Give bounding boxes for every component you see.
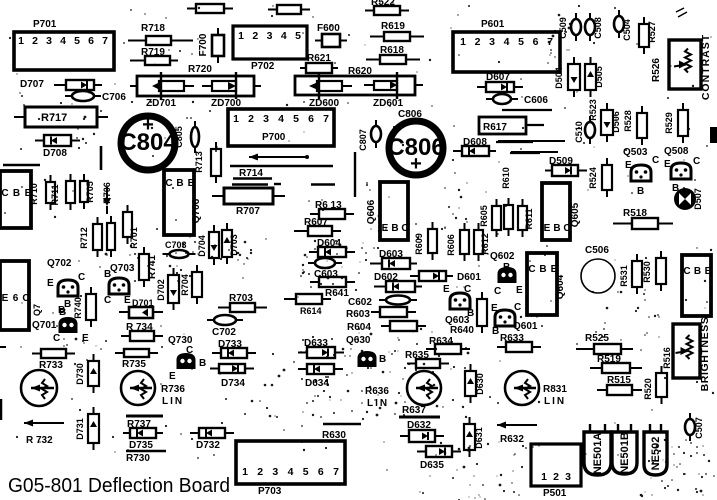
left edge mark	[0, 399, 2, 420]
diode D732	[190, 428, 234, 438]
transistor block E6C lower-left	[0, 261, 30, 330]
svg-text:C702: C702	[212, 327, 236, 338]
svg-text:R831: R831	[543, 384, 567, 395]
resistor R735	[115, 349, 158, 357]
resistor R611	[518, 199, 527, 237]
svg-text:D701: D701	[132, 298, 154, 308]
wire right of C606	[502, 109, 552, 111]
svg-text:CONTRAST: CONTRAST	[700, 34, 712, 100]
diode D604	[309, 247, 355, 257]
svg-text:E: E	[443, 284, 450, 295]
svg-text:B: B	[553, 223, 560, 234]
svg-text:5: 5	[518, 36, 524, 48]
capacitor C807	[371, 120, 381, 148]
svg-text:R632: R632	[500, 434, 524, 445]
zener ZD701	[152, 72, 194, 99]
svg-text:4: 4	[504, 36, 510, 48]
capacitor C603	[308, 258, 342, 268]
svg-text:R525: R525	[585, 333, 609, 344]
diode D731	[88, 407, 99, 450]
wire right lower	[510, 152, 540, 154]
svg-text:R736: R736	[161, 384, 185, 395]
resistor R515	[597, 385, 642, 395]
svg-text:1: 1	[238, 30, 244, 42]
svg-text:Q701: Q701	[32, 320, 57, 331]
diode D603	[370, 258, 417, 269]
svg-text:R530: R530	[642, 261, 652, 283]
svg-text:R712: R712	[79, 227, 89, 249]
resistor R609	[428, 222, 437, 260]
resistor R718	[128, 36, 193, 45]
svg-text:C: C	[528, 264, 535, 275]
potentiometer R831	[505, 371, 539, 405]
svg-text:Q702: Q702	[47, 258, 72, 269]
diode D633	[298, 347, 344, 358]
capacitor C507	[685, 413, 695, 441]
resistor R518	[613, 218, 673, 229]
svg-text:D607: D607	[486, 72, 510, 83]
svg-text:D732: D732	[196, 440, 220, 451]
svg-text:R607: R607	[304, 217, 328, 228]
transistor Q603	[450, 293, 470, 309]
resistor R708	[107, 216, 115, 257]
resistor R701	[123, 205, 132, 244]
svg-text:C509: C509	[558, 17, 568, 39]
diode D608	[453, 146, 496, 156]
diode D602	[374, 281, 422, 292]
transistor Q730	[178, 354, 195, 368]
capacitor C702	[207, 315, 243, 325]
resistor R703	[218, 303, 267, 312]
svg-text:D509: D509	[549, 156, 573, 167]
svg-text:C: C	[464, 284, 471, 295]
wire R714 stub	[274, 183, 281, 185]
svg-text:D507: D507	[693, 188, 703, 210]
svg-text:LIN: LIN	[162, 396, 184, 407]
svg-text:C: C	[165, 178, 172, 189]
svg-text:R705: R705	[85, 181, 95, 203]
svg-text:D604: D604	[317, 238, 341, 249]
svg-text:C606: C606	[524, 95, 548, 106]
neon lamp NE501A	[584, 424, 611, 475]
wire long under P700	[230, 165, 333, 167]
wire near C804	[100, 146, 103, 170]
transistor block CBE right	[682, 255, 712, 316]
svg-text:C: C	[78, 272, 85, 283]
svg-text:D704: D704	[197, 235, 207, 257]
svg-text:LIN: LIN	[367, 398, 389, 409]
svg-text:R619: R619	[381, 21, 405, 32]
svg-text:E: E	[516, 285, 523, 296]
svg-text:NE501A: NE501A	[592, 433, 604, 475]
svg-text:R603: R603	[346, 309, 370, 320]
svg-text:P700: P700	[262, 132, 286, 143]
wire R714 upper	[233, 177, 272, 179]
svg-text:5: 5	[295, 30, 301, 42]
svg-text:R610: R610	[501, 167, 511, 189]
svg-text:C504: C504	[622, 19, 632, 41]
svg-text:E: E	[625, 160, 632, 171]
diode D601	[410, 271, 453, 281]
svg-text:E: E	[2, 293, 9, 304]
wire right of D608	[496, 141, 533, 143]
zener block R620/ZD600/ZD601	[295, 76, 423, 95]
svg-text:5: 5	[74, 35, 80, 47]
capacitor C509	[571, 13, 581, 41]
svg-text:3: 3	[565, 471, 571, 483]
svg-text:R710: R710	[29, 183, 39, 205]
connector P703	[236, 441, 345, 484]
svg-text:R523: R523	[588, 99, 598, 121]
svg-text:R614: R614	[300, 306, 322, 316]
svg-text:B: B	[13, 188, 20, 199]
svg-text:R519: R519	[597, 354, 621, 365]
svg-text:Q508: Q508	[664, 146, 689, 157]
svg-text:F600: F600	[317, 23, 340, 34]
connector P701	[14, 32, 114, 70]
resistor R713	[211, 142, 221, 183]
svg-text:D608: D608	[463, 137, 487, 148]
capacitor C506	[581, 259, 615, 293]
svg-text:D731: D731	[75, 418, 85, 440]
resistor R633	[497, 342, 541, 352]
potentiometer R516 BRIGHTNESS	[673, 324, 700, 378]
diode D708	[35, 135, 80, 146]
svg-text:R515: R515	[607, 375, 631, 386]
resistor R614	[284, 294, 331, 304]
wire R730	[126, 450, 166, 453]
resistor R707	[212, 188, 285, 204]
svg-text:1: 1	[541, 471, 547, 483]
svg-text:R609: R609	[414, 233, 424, 255]
left edge dash	[0, 346, 6, 348]
svg-text:1: 1	[460, 36, 466, 48]
svg-text:B: B	[391, 223, 398, 234]
capacitor C510	[585, 116, 595, 144]
resistor R711	[66, 174, 75, 210]
svg-text:E: E	[382, 223, 389, 234]
svg-text:D635: D635	[420, 460, 444, 471]
resistor R606	[460, 223, 469, 261]
diode D702	[168, 268, 179, 310]
svg-text:R704: R704	[180, 274, 190, 296]
svg-text:B: B	[176, 178, 183, 189]
svg-text:R633: R633	[500, 333, 524, 344]
resistor R618	[366, 55, 420, 64]
capacitor C602	[379, 296, 417, 305]
svg-text:C: C	[401, 223, 408, 234]
svg-text:C706: C706	[102, 92, 126, 103]
diode D635	[417, 446, 461, 457]
svg-text:6: 6	[308, 113, 314, 125]
resistor R522	[365, 6, 409, 15]
svg-text:Q604: Q604	[555, 274, 566, 299]
svg-text:5: 5	[303, 466, 309, 478]
svg-text:D601: D601	[457, 272, 481, 283]
svg-text:E: E	[544, 223, 551, 234]
svg-text:4: 4	[281, 30, 287, 42]
svg-text:3: 3	[46, 35, 52, 47]
svg-text:E: E	[188, 178, 195, 189]
svg-text:D506: D506	[611, 111, 621, 133]
svg-text:C: C	[514, 302, 521, 313]
svg-text:B: B	[539, 264, 546, 275]
black mark right edge	[710, 127, 717, 143]
svg-text:BRIGHTNESS: BRIGHTNESS	[699, 317, 711, 392]
svg-text:1: 1	[18, 35, 24, 47]
svg-text:R612: R612	[480, 233, 490, 255]
resistor R612	[474, 223, 483, 261]
svg-text:C508: C508	[593, 17, 603, 39]
diode D506	[601, 103, 613, 142]
svg-text:D631: D631	[474, 427, 484, 449]
wire R714 lower	[232, 183, 268, 185]
svg-text:C: C	[693, 156, 700, 167]
wire arrow R732	[24, 420, 64, 427]
transistor Q508	[671, 163, 691, 179]
wire R737	[126, 415, 163, 418]
diode D509	[545, 165, 587, 176]
resistor R607	[294, 226, 341, 236]
svg-text:R718: R718	[141, 23, 165, 34]
svg-text:D735: D735	[129, 440, 153, 451]
diode D504	[568, 57, 580, 97]
svg-text:P703: P703	[258, 486, 282, 497]
svg-text:E: E	[47, 278, 54, 289]
diode D703	[222, 223, 232, 264]
svg-text:C602: C602	[348, 297, 372, 308]
resistor R717	[14, 107, 108, 127]
resistor R520	[656, 366, 667, 404]
svg-text:ZD701: ZD701	[146, 98, 176, 109]
svg-text:+: +	[142, 114, 154, 136]
svg-text:R720: R720	[188, 64, 212, 75]
svg-text:Q606: Q606	[366, 199, 377, 224]
resistor top-left unnamed	[187, 4, 233, 13]
diode D631	[464, 417, 475, 457]
resistor R605	[492, 199, 501, 237]
svg-text:D634: D634	[305, 378, 329, 389]
svg-text:3: 3	[263, 113, 269, 125]
transistor Q630	[359, 352, 376, 366]
svg-text:D702: D702	[156, 279, 166, 301]
resistor R619	[370, 32, 424, 41]
resistor R519	[590, 363, 642, 373]
capacitor C606	[486, 94, 518, 104]
diode D701	[119, 307, 163, 318]
svg-text:B: B	[199, 358, 206, 369]
svg-text:R641: R641	[325, 288, 349, 299]
resistor R710	[46, 175, 55, 210]
resistor R705	[80, 174, 88, 209]
svg-text:Q703: Q703	[110, 263, 135, 274]
resistor R733	[32, 349, 75, 358]
svg-text:2: 2	[252, 30, 258, 42]
svg-text:R707: R707	[236, 206, 260, 217]
svg-text:G05-801 Deflection Board: G05-801 Deflection Board	[8, 475, 230, 497]
svg-text:2: 2	[475, 36, 481, 48]
connector P501	[531, 444, 581, 486]
svg-text:7: 7	[102, 35, 108, 47]
resistor R704	[192, 265, 202, 304]
resistor R527	[639, 17, 649, 54]
svg-text:R636: R636	[365, 386, 389, 397]
resistor R531	[632, 254, 642, 294]
potentiometer R636	[407, 371, 441, 405]
svg-text:B: B	[104, 269, 111, 280]
svg-text:NE502: NE502	[650, 437, 662, 471]
resistor R635	[407, 359, 449, 368]
connector P702	[233, 26, 307, 59]
resistor R524	[602, 158, 612, 197]
resistor R613	[310, 209, 354, 219]
svg-text:E: E	[491, 303, 498, 314]
transistor Q602	[499, 268, 516, 282]
scribble top right	[676, 8, 687, 17]
transistor Q601	[495, 310, 515, 326]
svg-text:P701: P701	[33, 19, 57, 30]
svg-text:R522: R522	[371, 0, 395, 8]
svg-text:C: C	[652, 155, 659, 166]
diode D632	[400, 430, 444, 442]
svg-text:R 732: R 732	[26, 435, 53, 446]
svg-text:R606: R606	[446, 234, 456, 256]
svg-text:C805: C805	[174, 126, 184, 148]
svg-text:NE501B: NE501B	[619, 432, 631, 474]
svg-text:D504: D504	[554, 67, 564, 89]
wire under R617	[498, 140, 565, 142]
svg-text:B: B	[503, 262, 510, 273]
svg-text:4: 4	[288, 466, 294, 478]
resistor R712	[93, 217, 102, 257]
svg-text:Q605: Q605	[570, 202, 581, 227]
svg-text:R611: R611	[524, 208, 534, 229]
diode D704	[209, 225, 219, 265]
svg-text:D505: D505	[594, 66, 604, 88]
svg-text:3: 3	[272, 466, 278, 478]
capacitor C508	[585, 13, 595, 41]
resistor R610	[504, 198, 513, 236]
capacitor C805	[191, 121, 199, 153]
svg-text:B: B	[694, 266, 701, 277]
resistor R604	[381, 321, 426, 331]
svg-text:R604: R604	[347, 322, 371, 333]
wire arrow R632	[497, 422, 537, 429]
svg-text:R605: R605	[479, 205, 489, 227]
svg-text:R703: R703	[229, 293, 253, 304]
svg-text:Q602: Q602	[490, 251, 515, 262]
svg-text:C: C	[1, 188, 8, 199]
resistor R617	[479, 117, 544, 134]
transistor Q701	[60, 318, 77, 332]
svg-text:Q706: Q706	[191, 198, 202, 223]
fuse F700	[212, 28, 224, 63]
transistor block CBE upper-left	[0, 171, 32, 228]
svg-text:5: 5	[293, 113, 299, 125]
resistor top-mid unnamed	[268, 5, 310, 14]
svg-text:R635: R635	[405, 350, 429, 361]
svg-text:R640: R640	[450, 325, 474, 336]
svg-text:E: E	[664, 159, 671, 170]
svg-text:B: B	[492, 326, 499, 337]
potentiometer left bottom	[21, 370, 57, 406]
svg-text:+: +	[410, 153, 422, 175]
transistor Q703	[109, 278, 129, 294]
zener ZD700	[202, 72, 236, 99]
svg-text:R735: R735	[122, 359, 146, 370]
neon lamp NE501B	[612, 424, 637, 474]
diode D735	[123, 428, 163, 438]
transistor block Q706	[164, 170, 195, 235]
svg-text:R719: R719	[141, 47, 165, 58]
svg-text:6: 6	[318, 466, 324, 478]
svg-text:3: 3	[489, 36, 495, 48]
svg-text:R618: R618	[380, 45, 404, 56]
svg-text:1: 1	[242, 466, 248, 478]
resistor R528 body	[637, 106, 647, 145]
svg-text:Q630: Q630	[346, 335, 371, 346]
resistor R640	[477, 292, 487, 333]
svg-text:R526: R526	[651, 58, 662, 82]
svg-text:ZD601: ZD601	[373, 98, 403, 109]
svg-text:LIN: LIN	[544, 396, 566, 407]
diode D734	[210, 364, 254, 373]
diode D733	[212, 348, 256, 358]
svg-text:D708: D708	[43, 148, 67, 159]
svg-text:C506: C506	[585, 245, 609, 256]
svg-text:R524: R524	[588, 167, 598, 189]
svg-text:Q7: Q7	[32, 304, 42, 316]
svg-text:F700: F700	[198, 33, 209, 56]
diode D730	[88, 354, 99, 393]
resistor R741	[139, 247, 149, 287]
resistor R529	[678, 103, 688, 143]
svg-text:2: 2	[257, 466, 263, 478]
transistor Q503	[631, 165, 651, 181]
svg-text:C510: C510	[574, 121, 584, 143]
diode D505	[585, 57, 596, 97]
svg-text:R730: R730	[126, 453, 150, 464]
svg-text:E: E	[551, 264, 558, 275]
svg-text:R529: R529	[664, 112, 674, 134]
svg-text:R528: R528	[623, 110, 633, 132]
svg-text:E: E	[82, 333, 89, 344]
zener block R720/ZD701/ZD700	[130, 76, 261, 96]
diode D634	[298, 364, 343, 374]
svg-text:C: C	[186, 345, 193, 356]
wire R630	[323, 423, 361, 425]
resistor R621	[300, 63, 338, 73]
svg-text:R518: R518	[623, 208, 647, 219]
wire lower	[511, 151, 558, 153]
svg-text:P702: P702	[251, 61, 275, 72]
svg-text:E: E	[124, 295, 131, 306]
svg-text:P601: P601	[481, 19, 505, 30]
svg-text:R637: R637	[402, 405, 426, 416]
arrow wire under P700	[249, 154, 307, 161]
potentiometer R526 CONTRAST	[669, 40, 701, 89]
svg-text:D733: D733	[218, 339, 242, 350]
svg-text:R 734: R 734	[126, 322, 153, 333]
svg-text:7: 7	[333, 466, 339, 478]
resistor R525	[576, 344, 633, 354]
svg-text:4: 4	[278, 113, 284, 125]
svg-text:3: 3	[267, 30, 273, 42]
svg-text:E: E	[169, 371, 176, 382]
diode D607	[477, 82, 523, 92]
resistor R530	[656, 251, 666, 291]
svg-text:D633: D633	[304, 338, 328, 349]
